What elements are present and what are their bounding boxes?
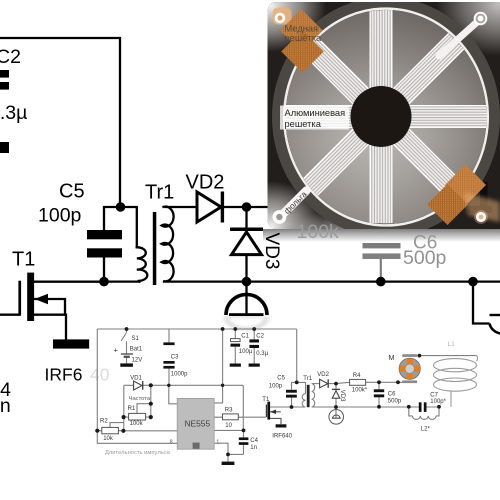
diode VD1 wires [124, 384, 151, 386]
node A junction (120.5,207) [116, 202, 126, 212]
inductor L2 frame [409, 407, 439, 416]
wire top rail [0, 38, 120, 207]
wire +12V top rail [97, 328, 296, 330]
svg-text:M: M [389, 353, 395, 362]
svg-text:0.3µ: 0.3µ [0, 102, 27, 124]
photo of ionizer grids (overlay image) [214, 0, 500, 273]
screw top-right [474, 12, 488, 26]
ground pad of T1 [276, 424, 287, 427]
capacitor C6 wires [378, 382, 380, 407]
svg-text:+: + [114, 346, 119, 355]
wire NE555 out to C4 node [214, 429, 243, 431]
resistor R1 body [129, 413, 146, 420]
wire motor top [419, 355, 476, 357]
svg-text:Tr1: Tr1 [145, 182, 174, 204]
fan disc face [286, 10, 487, 224]
svg-text:R3: R3 [225, 407, 233, 413]
svg-text:VD1: VD1 [130, 376, 142, 382]
wire bottom rail right segment [164, 280, 500, 282]
transformer Tr1 primary coil [137, 247, 148, 281]
transformer Tr1 core [153, 212, 157, 285]
svg-text:IRF640: IRF640 [272, 434, 292, 440]
svg-text:решётка: решётка [285, 33, 322, 43]
screw bottom-right [474, 210, 488, 224]
transistor T1 body arrow [34, 299, 65, 315]
svg-text:C3: C3 [171, 355, 179, 361]
transistor T1 source wire [34, 315, 66, 340]
svg-text:500p: 500p [388, 399, 402, 405]
aluminum grid arms [275, 10, 488, 223]
switch S1 [121, 329, 126, 354]
svg-text:C1: C1 [241, 334, 249, 340]
svg-text:Bat1: Bat1 [130, 347, 143, 353]
svg-text:C7: C7 [430, 392, 438, 398]
capacitor C5 plates [286, 390, 297, 393]
node B junction (104,281.6) [99, 277, 109, 287]
svg-text:12V: 12V [132, 358, 143, 364]
capacitor C7 plates [419, 402, 422, 412]
wire C3 to NE555 pin [169, 385, 177, 404]
capacitor C1 wires [234, 329, 236, 364]
node C junction (246.5,207) [242, 202, 252, 212]
motor M body (cut at right edge) [490, 324, 500, 334]
inductor L2 coil [412, 416, 436, 420]
svg-text:Длительность импульса: Длительность импульса [105, 450, 171, 456]
svg-text:решетка: решетка [285, 119, 322, 129]
transistor T1 gate wire [0, 314, 20, 316]
svg-text:C2: C2 [0, 46, 21, 68]
screw top-left [275, 13, 286, 24]
inductor L1 coil [434, 356, 478, 407]
svg-text:Tr1: Tr1 [303, 376, 312, 382]
svg-text:100k*: 100k* [352, 388, 368, 394]
wire VD1 anode down [123, 385, 125, 431]
screw bottom-left [273, 210, 287, 224]
photo drop shadow bottom [263, 229, 500, 242]
diode VD2 wires [328, 382, 349, 383]
transistor T1 [266, 405, 267, 418]
svg-text:100p: 100p [269, 384, 283, 390]
wire rail to NE555 VCC [214, 329, 222, 403]
wire node A to Tr1 primary [120, 207, 137, 247]
resistor R3 body [223, 414, 239, 420]
transistor T1 drain wire [34, 280, 104, 282]
wire Tr1 secondary top to VD2 [166, 206, 196, 208]
spark gap wire [335, 407, 337, 409]
svg-text:S1: S1 [132, 336, 140, 342]
svg-text:T1: T1 [262, 397, 270, 403]
resistor R4 body [350, 379, 366, 385]
diode VD2 [197, 192, 221, 222]
transformer Tr1 secondary coil [162, 207, 174, 282]
diode VD3 [232, 232, 262, 255]
svg-text:500p: 500p [403, 247, 447, 269]
svg-text:100k: 100k [130, 421, 144, 427]
diode VD3 cathode bar [230, 228, 263, 232]
diode VD1 [134, 381, 142, 390]
resistor R1 wires and wiper [124, 404, 151, 417]
capacitor C2 plates [249, 339, 259, 342]
wire drain rail [270, 406, 439, 408]
svg-text:0.3µ: 0.3µ [256, 351, 268, 357]
svg-text:L1: L1 [448, 341, 456, 348]
svg-text:IRF6: IRF6 [45, 364, 83, 384]
capacitor C2 plates (cut at left edge) [0, 70, 9, 78]
junction dots [95, 327, 441, 456]
wire node to C4 [242, 385, 244, 430]
label aluminum grid [280, 106, 349, 130]
ground pad of T1 source [53, 339, 90, 348]
svg-text:1000p: 1000p [171, 372, 188, 378]
svg-text:R2: R2 [100, 419, 108, 425]
wire bottom rail left segment [34, 280, 139, 282]
discharge electrode dome [226, 282, 267, 316]
mounting bracket (dark, right) [480, 182, 488, 212]
capacitor C4 plates [239, 437, 249, 440]
svg-text:VD3: VD3 [339, 390, 345, 402]
wire C5 bottom to rail [103, 258, 105, 282]
capacitor C5 plates [87, 230, 122, 239]
resistor R3 wires [214, 416, 266, 418]
fan outer dark ring [278, 3, 495, 232]
ground pad of C1 [230, 364, 241, 367]
svg-text:C6: C6 [388, 392, 396, 398]
inset full schematic (overlay image) [89, 319, 487, 469]
svg-text:Медная: Медная [285, 23, 319, 33]
wire mid node [151, 384, 244, 386]
capacitor C4 wires [243, 430, 245, 454]
svg-text:C5: C5 [277, 376, 285, 382]
capacitor C3 wires [168, 329, 170, 385]
svg-text:L2*: L2* [421, 427, 431, 433]
svg-text:100p: 100p [38, 205, 82, 227]
capacitor C2 wires [253, 329, 255, 364]
transformer Tr1 primary coil [302, 394, 305, 407]
spark gap F1 [329, 410, 344, 425]
IC NE555 body [177, 398, 214, 449]
svg-text:1: 1 [216, 439, 219, 445]
support rod top-right [439, 19, 481, 56]
transistor T1 channel bar [27, 273, 34, 321]
svg-text:VD2: VD2 [317, 372, 329, 378]
resistor R2 body [102, 427, 119, 433]
capacitor C6 plates (dimmed) [363, 243, 401, 248]
transistor T1 gate bar [18, 281, 21, 316]
wire left rail to pin 8 [97, 329, 177, 443]
ground pad pin1 [222, 462, 235, 465]
foil tag bottom-left [282, 191, 307, 216]
ground pad of Bat1 [120, 363, 133, 366]
wire rail right end down to C5/Tr1 [292, 329, 306, 407]
wire pin1 to ground [214, 443, 243, 461]
svg-text:100µ: 100µ [239, 349, 253, 355]
inset labels [100, 334, 455, 456]
fan hub (black center) [351, 86, 412, 147]
svg-text:Алюминиевая: Алюминиевая [285, 108, 346, 118]
diode VD2 [320, 379, 328, 388]
svg-text:R1: R1 [128, 406, 136, 412]
svg-text:VD2: VD2 [186, 172, 225, 194]
svg-text:C4: C4 [250, 438, 258, 444]
svg-text:T1: T1 [12, 249, 35, 271]
wire VD1 cathode down [150, 385, 152, 417]
copper grid top-left [273, 8, 324, 73]
capacitor C6 plates [374, 389, 384, 392]
capacitor C1 plates (electrolytic) [231, 339, 241, 342]
battery Bat1 [121, 353, 133, 355]
resistor R2 wires and wiper [97, 423, 177, 431]
wire node A to C5 [104, 207, 120, 230]
wire C6 to bottom rail (dimmed) [380, 259, 382, 282]
wire VD3 branch [335, 384, 337, 407]
wire to motor M [473, 282, 490, 324]
wire VD3 vertical [245, 207, 247, 282]
wire R4 to C6 node [366, 381, 403, 383]
ground pad of C2 [249, 364, 260, 367]
svg-text:1n: 1n [250, 445, 257, 451]
svg-text:Частота: Частота [129, 396, 151, 402]
svg-text:100k: 100k [297, 221, 340, 243]
copper grid bottom-right [427, 164, 500, 225]
svg-text:1n: 1n [0, 395, 11, 417]
wire Tr1 secondary to VD2 [312, 383, 320, 385]
transformer Tr1 secondary coil [312, 384, 315, 407]
capacitor C3 plates [163, 342, 174, 345]
fan bright rim [284, 9, 488, 226]
svg-text:VD3: VD3 [261, 233, 282, 270]
svg-text:C5: C5 [59, 181, 85, 203]
svg-text:8: 8 [170, 439, 173, 445]
svg-text:C2: C2 [256, 334, 264, 340]
diode VD3 [332, 388, 340, 390]
node D junction (246.5,281.6) [242, 277, 252, 287]
motor M mounts [402, 354, 417, 357]
node F junction (380.8,281.6) [376, 277, 386, 287]
svg-text:NE555: NE555 [185, 419, 211, 429]
node E junction (473,281.6) [468, 277, 478, 287]
svg-text:10: 10 [225, 423, 232, 429]
svg-text:100p*: 100p* [430, 399, 446, 405]
transformer Tr1 core [307, 385, 310, 407]
motor M mount bar (cut at right edge) [490, 314, 500, 316]
svg-text:R4: R4 [353, 373, 361, 379]
discharge electrode dome shadow [226, 316, 267, 329]
ground pad of C2 [0, 142, 9, 153]
svg-text:10k: 10k [103, 436, 114, 442]
motor M body [399, 358, 420, 379]
